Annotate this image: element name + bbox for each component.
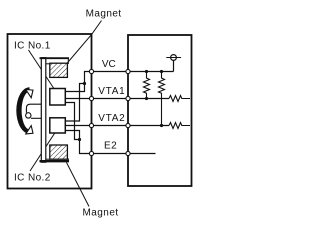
resistor R4 (series VTA2) — [169, 123, 190, 129]
wire E2 terminal line — [92, 153, 156, 155]
svg-text:VTA2: VTA2 — [98, 113, 125, 124]
wire IC2 E2 pin — [65, 131, 79, 140]
leader line to IC2 — [30, 127, 59, 172]
shaft lever bottom line — [31, 117, 41, 119]
rotation arrowhead top — [26, 90, 33, 98]
yoke left bar — [41, 58, 46, 163]
sensor housing box (left) — [8, 34, 92, 189]
terminal circle E2 left — [89, 151, 93, 155]
terminal circle VC left — [89, 69, 93, 73]
magnet (top, hatched) — [50, 63, 68, 77]
junction dot R1 top — [145, 70, 148, 73]
ECU box (right) — [128, 35, 192, 186]
junction dot R1 bottom — [145, 97, 148, 100]
junction dot VC branch — [83, 82, 86, 85]
rotation arrowhead bottom — [26, 126, 33, 134]
wire E2 trunk — [80, 140, 92, 154]
IC1 body — [50, 89, 66, 106]
wire VTA1 terminal line — [65, 98, 169, 100]
rotation arrow (crescent) — [16, 87, 29, 134]
power feed elbow — [173, 60, 175, 71]
svg-text:Magnet: Magnet — [83, 208, 119, 219]
leader line to top magnet — [63, 21, 102, 69]
power symbol circle — [171, 55, 177, 61]
terminal circle VTA2 right — [126, 123, 130, 127]
resistor R2 (pull-up VTA2) — [159, 72, 165, 126]
power symbol line — [166, 57, 181, 59]
IC2 body — [50, 118, 66, 133]
terminal circle VTA2 left — [89, 123, 93, 127]
svg-text:VC: VC — [102, 59, 116, 70]
resistor R1 (pull-up VTA1) — [144, 72, 150, 99]
junction dot R2 top — [160, 70, 163, 73]
svg-text:IC No.1: IC No.1 — [14, 40, 51, 51]
wire IC1 E2 pin — [65, 103, 79, 140]
shaft lever knob — [26, 113, 31, 118]
terminal circle VTA1 right — [126, 96, 130, 100]
wire VC terminal line — [92, 71, 174, 73]
leader line to IC1 — [29, 50, 60, 97]
terminal circle VC right — [126, 69, 130, 73]
svg-text:IC No.2: IC No.2 — [14, 173, 51, 184]
terminal circle E2 right — [126, 151, 130, 155]
leader line to bottom magnet — [67, 163, 90, 207]
svg-text:Magnet: Magnet — [86, 9, 122, 20]
magnet (bottom, hatched) — [50, 145, 68, 159]
junction dot R2 bottom — [160, 124, 163, 127]
resistor R3 (series VTA1) — [169, 96, 190, 102]
svg-text:E2: E2 — [104, 141, 117, 152]
wire VC branch to IC2 — [65, 84, 84, 122]
wire IC1 VC pin — [65, 72, 91, 92]
wire VTA2 terminal line — [65, 125, 169, 127]
svg-text:VTA1: VTA1 — [98, 86, 125, 97]
yoke top arm — [40, 57, 70, 59]
junction dot E2 — [78, 138, 81, 141]
shaft lever tab — [26, 104, 41, 113]
terminal circle VTA1 left — [89, 96, 93, 100]
yoke bottom arm — [40, 160, 70, 162]
